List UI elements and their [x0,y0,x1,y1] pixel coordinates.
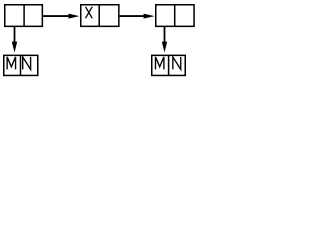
wire: down arrow node1 -> data box MN (left) [12,27,17,53]
node box 1 (top-left, two cells) [5,5,43,27]
wire: arrow node1 -> node2 [43,14,79,19]
data box MN (bottom-left) [4,55,38,75]
wire: down arrow node3 -> data box MN (right) [162,27,167,53]
data box MN (bottom-right) [152,55,186,75]
wire: arrow node2 -> node3 [120,14,155,19]
node box 3 (top-right, two cells) [156,5,194,27]
node box 2 (middle, cell X + empty cell) [81,5,119,27]
